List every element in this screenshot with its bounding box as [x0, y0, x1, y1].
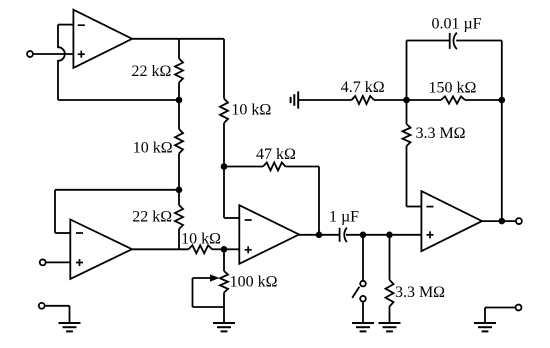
svg-text:150 kΩ: 150 kΩ [429, 80, 477, 97]
svg-text:0.01 µF: 0.01 µF [431, 16, 481, 33]
svg-text:100 kΩ: 100 kΩ [230, 273, 278, 290]
svg-text:3.3 MΩ: 3.3 MΩ [395, 284, 445, 301]
svg-text:10 kΩ: 10 kΩ [133, 140, 173, 157]
svg-text:22 kΩ: 22 kΩ [132, 209, 172, 226]
svg-text:3.3 MΩ: 3.3 MΩ [415, 125, 465, 142]
svg-text:47 kΩ: 47 kΩ [256, 146, 296, 163]
svg-text:4.7 kΩ: 4.7 kΩ [341, 79, 385, 96]
svg-text:22 kΩ: 22 kΩ [131, 63, 171, 80]
svg-text:10 kΩ: 10 kΩ [231, 102, 271, 119]
svg-text:1 µF: 1 µF [329, 209, 359, 226]
svg-text:10 kΩ: 10 kΩ [181, 230, 221, 247]
